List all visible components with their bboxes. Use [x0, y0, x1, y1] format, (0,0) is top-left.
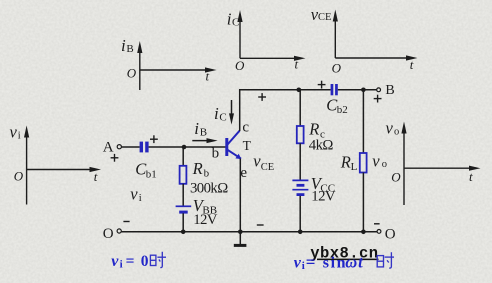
axis vi label vi	[10, 122, 21, 141]
axis iC label t	[295, 57, 299, 72]
wire Rb branch upper	[182, 147, 184, 166]
label 4kohm	[309, 138, 334, 154]
svg-text:b2: b2	[337, 104, 348, 116]
svg-text:R: R	[308, 120, 319, 139]
transistor T emitter stroke with arrow	[228, 150, 242, 159]
svg-text:C: C	[219, 111, 226, 123]
svg-text:4kΩ: 4kΩ	[309, 138, 334, 154]
svg-text:t: t	[295, 57, 299, 72]
wire emitter down	[239, 159, 241, 232]
label Cb2	[326, 95, 348, 116]
node emitter bottom junction	[238, 230, 243, 235]
svg-text:v: v	[386, 118, 394, 137]
plus sign before Cb2	[318, 81, 326, 89]
svg-text:12V: 12V	[311, 189, 336, 205]
svg-text:b: b	[204, 168, 210, 180]
svg-text:12V: 12V	[193, 212, 218, 228]
svg-text:0: 0	[141, 253, 149, 270]
capacitor Cb1	[140, 142, 149, 153]
svg-text:=: =	[306, 252, 316, 271]
svg-text:300kΩ: 300kΩ	[190, 181, 228, 197]
node base-Rb junction	[182, 145, 187, 150]
svg-text:i: i	[214, 104, 219, 123]
label Rb	[192, 159, 210, 180]
wire Cb2 to B	[338, 89, 377, 91]
svg-text:v: v	[10, 122, 18, 141]
label 300kohm	[190, 181, 228, 197]
plus sign vCE top	[258, 93, 266, 101]
svg-text:t: t	[206, 69, 210, 84]
axis vCE (top-right waveform axes)	[335, 19, 409, 59]
label 12V (VCC)	[311, 189, 336, 205]
svg-text:O: O	[332, 61, 342, 76]
svg-text:B: B	[126, 43, 133, 55]
caption hanzi shi (right)	[377, 252, 394, 268]
capacitor Cb2	[331, 84, 338, 95]
svg-text:CE: CE	[261, 162, 274, 173]
label vCE	[253, 151, 274, 173]
axis vi label O	[14, 168, 24, 183]
axis iB label iB	[121, 36, 134, 55]
label c (collector pin)	[242, 120, 249, 136]
svg-text:o: o	[394, 127, 399, 138]
node Rc bottom junction	[298, 230, 303, 235]
node RL bottom junction	[361, 230, 366, 235]
axis vCE label O	[332, 61, 342, 76]
label Cb1	[135, 160, 157, 181]
plus sign at Cb1 right	[150, 135, 158, 143]
label vi (input voltage)	[130, 185, 142, 204]
wire VCC to bottom	[299, 196, 301, 232]
axis iC (top-center waveform axes)	[240, 19, 297, 58]
svg-text:CE: CE	[318, 12, 331, 23]
wire Rc branch upper	[299, 90, 301, 126]
axis iB (top-left waveform axes)	[140, 50, 208, 90]
label Rc	[308, 120, 325, 141]
terminal O right	[374, 224, 396, 243]
svg-text:c: c	[242, 120, 249, 136]
wire RL to bottom	[362, 173, 364, 232]
battery VBB	[176, 206, 192, 212]
svg-text:t: t	[410, 57, 414, 72]
wire A to Cb1	[122, 146, 140, 148]
svg-text:i: i	[302, 260, 305, 272]
svg-text:i: i	[18, 131, 21, 142]
label vo (output voltage)	[372, 151, 387, 170]
wire collector up	[239, 90, 241, 131]
svg-text:ωt: ωt	[345, 253, 364, 272]
wire VBB to bottom	[182, 213, 184, 232]
axis vCE label t	[410, 57, 414, 72]
axis vo label O	[391, 170, 401, 185]
wire bottom rail	[121, 231, 377, 233]
plus sign at input A	[111, 154, 119, 162]
svg-text:A: A	[103, 139, 114, 155]
label e (emitter pin)	[240, 165, 247, 181]
current arrow iB	[192, 119, 217, 143]
svg-text:v: v	[372, 151, 380, 170]
axis vi (left waveform axes)	[27, 135, 93, 205]
caption vi = 0 (blue)	[111, 253, 149, 271]
axis vi label t	[94, 169, 98, 184]
resistor RL	[360, 153, 367, 173]
transistor T base bar	[225, 138, 228, 156]
current arrow iC	[214, 100, 234, 125]
axis iB label O	[127, 66, 137, 81]
svg-text:O: O	[103, 226, 114, 242]
wire Cb1 to base	[149, 146, 226, 148]
label b (base pin)	[212, 146, 220, 162]
svg-text:O: O	[14, 168, 24, 183]
svg-text:O: O	[391, 170, 401, 185]
svg-text:R: R	[340, 152, 351, 171]
wire RL branch upper	[362, 90, 364, 153]
svg-text:b1: b1	[146, 168, 157, 180]
label RL	[340, 152, 358, 173]
axis vCE label vCE	[311, 5, 332, 24]
node RL top junction	[361, 88, 366, 93]
svg-text:sin: sin	[323, 255, 347, 272]
terminal A	[103, 139, 122, 155]
battery VCC	[292, 180, 308, 194]
label T	[243, 138, 252, 153]
label VBB	[193, 196, 217, 217]
label VCC	[311, 174, 335, 195]
svg-text:i: i	[139, 193, 142, 204]
svg-text:O: O	[127, 66, 137, 81]
svg-text:t: t	[94, 169, 98, 184]
svg-text:i: i	[120, 258, 123, 270]
svg-text:O: O	[385, 227, 396, 243]
svg-text:=: =	[126, 253, 135, 270]
axis vo label vo	[386, 118, 400, 137]
svg-text:R: R	[192, 159, 203, 178]
axis vo (right waveform axes)	[404, 131, 472, 206]
svg-text:C: C	[232, 16, 239, 28]
axis iC label iC	[227, 9, 240, 28]
resistor Rc	[297, 126, 304, 143]
caption vi = sin wt (blue)	[294, 252, 364, 272]
svg-text:v: v	[111, 253, 119, 270]
svg-text:B: B	[385, 83, 394, 98]
svg-text:b: b	[212, 146, 220, 162]
svg-text:i: i	[194, 119, 199, 138]
resistor Rb	[180, 166, 187, 184]
svg-text:v: v	[294, 255, 302, 272]
terminal B	[377, 83, 395, 98]
svg-text:v: v	[130, 185, 138, 204]
axis vo label t	[469, 169, 473, 184]
wire Rb to VBB	[182, 184, 184, 206]
label 12V (VBB)	[193, 212, 218, 228]
watermark ybx8.cn	[310, 245, 378, 263]
svg-text:B: B	[200, 127, 207, 139]
wire top rail	[239, 89, 331, 91]
svg-text:o: o	[382, 159, 387, 170]
ground	[234, 232, 247, 246]
svg-text:t: t	[469, 169, 473, 184]
svg-text:i: i	[121, 36, 126, 55]
svg-text:T: T	[243, 138, 252, 153]
plus sign under B	[374, 95, 382, 103]
axis iB label t	[206, 69, 210, 84]
caption hanzi shi (left)	[150, 252, 166, 268]
node Rc top junction	[297, 88, 302, 93]
transistor T collector stroke	[228, 131, 240, 145]
wire Rc to VCC	[299, 143, 301, 180]
svg-text:e: e	[240, 165, 247, 181]
minus sign vCE bottom	[257, 224, 264, 226]
node Rb bottom junction	[181, 230, 186, 235]
terminal O left	[103, 222, 130, 242]
axis iC label O	[235, 58, 245, 73]
svg-text:O: O	[235, 58, 245, 73]
svg-text:L: L	[351, 161, 358, 173]
